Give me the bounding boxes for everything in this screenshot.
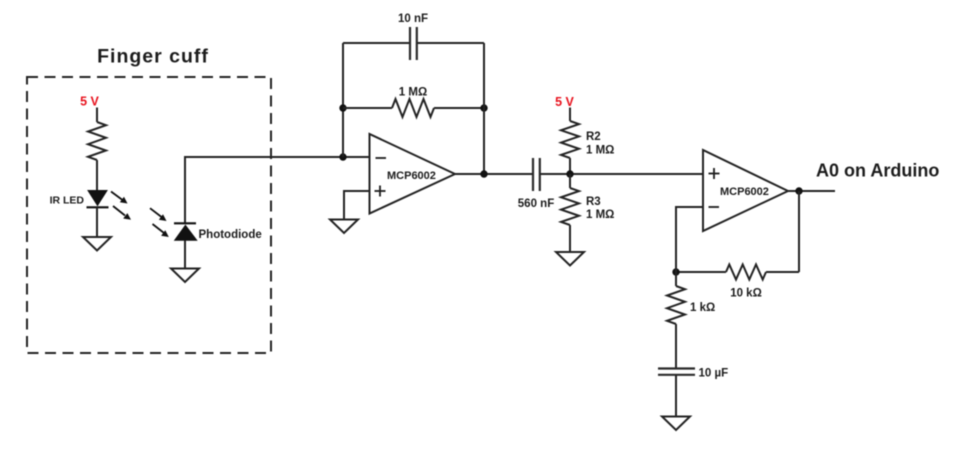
resistor 1 Mohm feedback (392, 99, 434, 117)
svg-text:1 kΩ: 1 kΩ (690, 302, 715, 314)
label 10 kohm (730, 288, 762, 300)
label R2 1 Mohm (586, 131, 614, 157)
ground (R3) (556, 252, 584, 266)
label Finger cuff (97, 46, 209, 68)
capacitor 560 nF (533, 158, 540, 191)
label MCP6002 U2 (720, 186, 769, 198)
svg-text:IR LED: IR LED (50, 195, 85, 207)
label MCP6002 U1 (387, 170, 436, 182)
junction op-amp1 output (480, 170, 487, 177)
junction at op-amp1 inverting input (339, 153, 346, 160)
wire 1k to 10uF (675, 324, 677, 369)
node 5V (divider supply) (555, 95, 574, 109)
label 10 uF (699, 368, 729, 380)
wire photodiode to ground (184, 240, 186, 268)
op-amp U2 MCP6002 (703, 150, 788, 231)
resistor R2 1 Mohm (561, 121, 579, 158)
wire feedback left vertical (342, 43, 344, 157)
wire op-amp2 inverting input (676, 207, 703, 272)
junction feedback node (672, 268, 679, 275)
incoming light arrow 1 (150, 208, 167, 221)
wire op-amp1 output (455, 173, 533, 175)
label IR LED (50, 195, 85, 207)
wire R1 to IR LED (96, 160, 98, 190)
capacitor 10 uF (658, 369, 695, 375)
label Photodiode (199, 229, 262, 241)
incoming light arrow 2 (153, 224, 169, 237)
wire junction to R3 (569, 174, 571, 188)
diode IR LED (87, 191, 109, 208)
wire main line to op-amp2 (540, 173, 703, 175)
wire output feedback vertical (798, 191, 800, 272)
wire R2 to junction (569, 158, 571, 174)
resistor 1 kohm (667, 286, 685, 324)
LED emission arrow 2 (113, 206, 131, 220)
svg-text:5 V: 5 V (555, 95, 574, 109)
svg-text:Finger cuff: Finger cuff (97, 46, 209, 68)
svg-text:MCP6002: MCP6002 (720, 186, 769, 198)
svg-text:560 nF: 560 nF (518, 198, 554, 210)
svg-text:10 kΩ: 10 kΩ (730, 288, 762, 300)
capacitor 10 nF (410, 27, 417, 60)
svg-text:1 MΩ: 1 MΩ (586, 145, 614, 157)
op-amp U1 MCP6002 (370, 134, 456, 214)
wire feedback right vertical (483, 43, 485, 174)
junction divider node (566, 170, 573, 177)
svg-text:A0 on Arduino: A0 on Arduino (816, 161, 939, 181)
junction feedback right on resistor rail (480, 104, 487, 111)
label 560 nF (518, 198, 554, 210)
wire photodiode cathode up and across (185, 157, 370, 223)
wire cap rail right (417, 42, 484, 44)
junction feedback left on resistor rail (339, 104, 346, 111)
resistor R3 1 Mohm (561, 188, 579, 225)
node 5V (left supply) (80, 95, 99, 109)
svg-text:5 V: 5 V (80, 95, 99, 109)
wire op-amp1 + input to ground (344, 191, 370, 220)
junction op-amp2 output (795, 187, 802, 194)
wire 1M ohm rail right (434, 107, 484, 109)
label R3 1 Mohm (586, 196, 614, 221)
wire 1M ohm rail left (343, 107, 392, 109)
finger cuff enclosure (dashed) (27, 77, 271, 353)
svg-text:1 MΩ: 1 MΩ (399, 87, 427, 99)
wire junction to 1k (675, 272, 677, 286)
svg-text:R2: R2 (586, 131, 601, 143)
ground (photodiode) (171, 269, 199, 283)
wire 10k rail right (766, 271, 799, 273)
wire cap rail left (343, 42, 410, 44)
ground (op-amp1 +) (330, 220, 358, 234)
label 1 kohm (690, 302, 715, 314)
wire 10uF to ground (675, 375, 677, 417)
wire 5V to R1 (96, 108, 98, 123)
svg-text:MCP6002: MCP6002 (387, 170, 436, 182)
ground (IR LED) (83, 237, 111, 251)
ground (output filter) (662, 417, 690, 431)
resistor 10 kohm (726, 265, 766, 280)
svg-text:R3: R3 (586, 196, 601, 208)
wire op-amp2 output (788, 190, 835, 192)
photodiode D1 (174, 223, 197, 240)
svg-text:1 MΩ: 1 MΩ (586, 209, 614, 221)
wire IR LED to ground (96, 207, 98, 237)
svg-text:10 µF: 10 µF (699, 368, 729, 380)
label 1 Mohm feedback (399, 87, 427, 99)
label 10 nF (398, 13, 428, 25)
wire 10k rail left (676, 271, 726, 273)
resistor R1 (LED series resistor) (88, 122, 106, 160)
wire R3 to ground (569, 225, 571, 252)
LED emission arrow 1 (111, 192, 128, 204)
wire 5V to R2 (569, 108, 571, 122)
node A0 on Arduino (816, 161, 939, 181)
svg-text:Photodiode: Photodiode (199, 229, 262, 241)
svg-text:10 nF: 10 nF (398, 13, 428, 25)
